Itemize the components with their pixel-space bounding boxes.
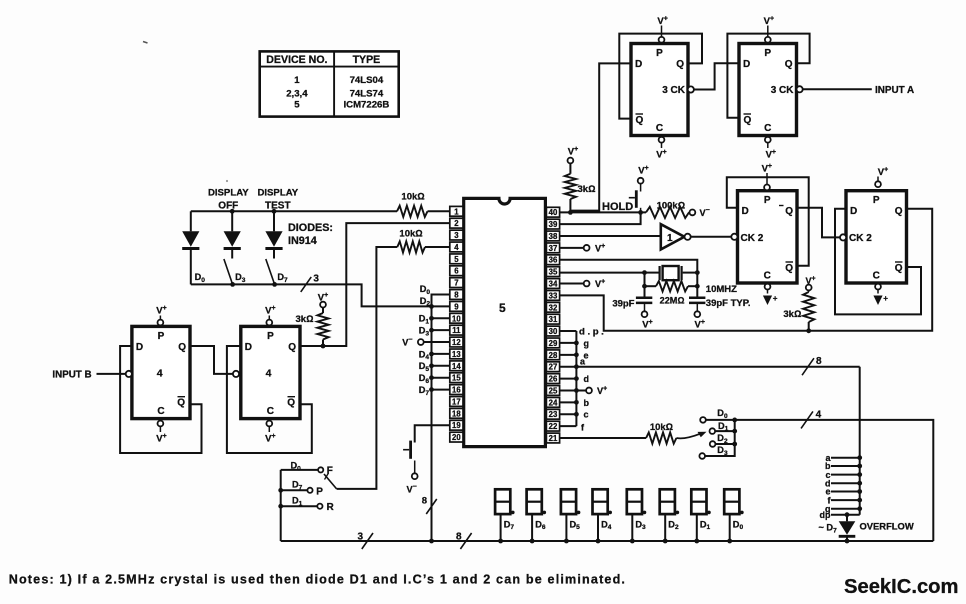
- svg-text:35: 35: [549, 268, 558, 277]
- svg-text:30: 30: [549, 327, 558, 336]
- wire U4A Q to U4B CK: [190, 346, 233, 374]
- V+ terminal pin 37: [560, 243, 605, 254]
- label OVERFLOW: [860, 521, 914, 532]
- wire D7 row to P: [278, 488, 307, 493]
- wire segment g to overflow LED: [825, 504, 862, 514]
- svg-text:13: 13: [452, 350, 461, 359]
- svg-text:c: c: [584, 410, 589, 420]
- svg-text:39: 39: [549, 220, 558, 229]
- V- terminal (reset button): [407, 473, 418, 494]
- svg-text:3kΩ: 3kΩ: [578, 184, 596, 195]
- svg-text:23: 23: [549, 410, 558, 419]
- svg-text:3 CK: 3 CK: [771, 85, 795, 96]
- svg-text:1: 1: [294, 75, 300, 86]
- bus slash 8 (segment bus): [802, 356, 822, 375]
- svg-text:TYPE: TYPE: [353, 54, 381, 66]
- svg-text:ICM7226B: ICM7226B: [343, 99, 389, 110]
- label D0 pin8: [420, 284, 431, 296]
- svg-text:IN914: IN914: [288, 235, 317, 247]
- wire d.p./segment pin bus (pins 30-22): [560, 331, 579, 426]
- V+ terminal U2B clear: [873, 284, 888, 305]
- svg-text:C: C: [157, 406, 164, 417]
- svg-text:22: 22: [549, 422, 558, 431]
- resistor 3k (U2B): [783, 276, 815, 331]
- V+ terminal U4A preset: [156, 305, 166, 325]
- wire pin 8 D0: [432, 295, 450, 307]
- IC U5 right pin boxes 40-21: [546, 207, 559, 443]
- label d.p. pin30: [579, 327, 606, 338]
- wire INPUT B: [97, 373, 126, 375]
- node: display-off branch: [230, 209, 235, 214]
- label D7 pin16: [419, 385, 430, 397]
- svg-text:2,3,4: 2,3,4: [286, 88, 308, 99]
- V+ terminal U2A clear: [763, 284, 778, 305]
- svg-text:7: 7: [454, 279, 458, 288]
- LED overflow: [839, 515, 856, 544]
- svg-text:F: F: [327, 466, 333, 477]
- label D3 (digit sel): [717, 445, 728, 457]
- svg-text:20: 20: [452, 433, 461, 442]
- svg-text:R: R: [327, 502, 335, 513]
- node 3k / segment rail: [806, 328, 811, 333]
- svg-text:D: D: [743, 59, 750, 70]
- resistor 22M: [645, 281, 698, 306]
- inverter U1: [661, 224, 691, 249]
- V- terminal (100k): [690, 207, 710, 218]
- wire inverter to U2A clock: [691, 236, 732, 238]
- crystal Y1 10MHZ: [645, 266, 698, 280]
- svg-text:8: 8: [422, 496, 427, 507]
- svg-text:Q: Q: [785, 206, 793, 217]
- pushbutton HOLD: [629, 184, 641, 213]
- wire INPUT A: [803, 88, 872, 90]
- wire U3A feedback loop: [619, 34, 702, 119]
- svg-text:3: 3: [313, 274, 319, 285]
- svg-text:36: 36: [549, 256, 558, 265]
- label D5 pin14: [419, 361, 430, 373]
- 7-segment display D2: [660, 489, 680, 543]
- wire D0 row to F: [281, 469, 318, 471]
- bus slash 8 (data bus): [422, 496, 437, 515]
- wire pin 19 to reset button: [415, 425, 450, 442]
- label g pin29: [584, 338, 590, 348]
- svg-text:100kΩ: 100kΩ: [657, 201, 685, 212]
- flip-flop U3A 74LS74: [631, 44, 694, 136]
- V+ terminal pin 25: [560, 385, 607, 396]
- wire segment e to overflow LED: [825, 487, 862, 497]
- svg-text:3: 3: [454, 231, 459, 240]
- V+ terminal U4A clear: [156, 421, 166, 445]
- label f pin22: [581, 423, 585, 433]
- svg-text:dp: dp: [820, 510, 831, 520]
- 7-segment display D7: [495, 489, 514, 543]
- pushbutton (pin 19 reset): [403, 441, 415, 474]
- wire bottom multiplex bus: [281, 540, 934, 542]
- V+ terminal U4B preset: [265, 305, 275, 325]
- svg-text:Q: Q: [785, 59, 793, 70]
- svg-text:4: 4: [454, 243, 459, 252]
- wire U4A feedback loop: [120, 346, 201, 453]
- resistor 10k (pin 21): [646, 422, 676, 444]
- diode D3 IN914: [224, 211, 241, 258]
- selector arm to D1: [676, 432, 706, 439]
- svg-text:DIODES:: DIODES:: [288, 222, 333, 234]
- svg-text:D: D: [635, 59, 642, 70]
- label D7 (P row): [292, 480, 303, 492]
- wire segment b to overflow LED: [825, 461, 862, 471]
- svg-text:d: d: [584, 374, 590, 384]
- svg-text:37: 37: [549, 244, 558, 253]
- label 39pF (C1): [612, 299, 634, 310]
- wire switch common bus to pins 8/9: [191, 284, 450, 306]
- node pin40/3k: [568, 210, 573, 215]
- capacitor C2 39pF: [689, 298, 705, 312]
- svg-text:Q: Q: [895, 206, 903, 217]
- contact D0 (digit sel): [700, 417, 706, 423]
- label HOLD: [602, 201, 633, 213]
- svg-text:D: D: [245, 342, 252, 353]
- label D1 (digit sel): [718, 421, 729, 433]
- wire segment d to overflow LED: [825, 478, 862, 488]
- svg-text:SeekIC.com: SeekIC.com: [844, 576, 958, 598]
- bus slash 3 (switch bus): [301, 274, 320, 292]
- svg-text:CK 2: CK 2: [849, 233, 872, 244]
- resistor 100k (hold): [646, 201, 689, 219]
- svg-text:1: 1: [454, 207, 459, 216]
- svg-text:INPUT A: INPUT A: [875, 85, 914, 96]
- svg-text:CK 2: CK 2: [741, 233, 764, 244]
- V+ terminal U2B preset: [875, 167, 888, 188]
- IC U5 ICM7226B body: [464, 198, 546, 446]
- svg-text:3kΩ: 3kΩ: [296, 314, 314, 325]
- svg-text:18: 18: [452, 409, 461, 418]
- label DIODES: IN914: [288, 222, 333, 247]
- svg-text:4: 4: [816, 410, 822, 421]
- switch D3 (display off): [224, 259, 235, 287]
- V+ terminal U3A preset: [657, 16, 667, 43]
- label D6 pin15: [419, 373, 430, 385]
- wire pin1 bus (display diodes common to pin 1): [191, 210, 450, 212]
- V+ terminal (pin 40 pullup): [568, 146, 579, 163]
- svg-text:HOLD: HOLD: [602, 201, 633, 213]
- wire pin 10 D1: [429, 316, 450, 321]
- contact D2 (digit sel): [710, 441, 716, 447]
- svg-text:8: 8: [456, 532, 462, 543]
- flip-flop U2B 74LS74: [840, 191, 907, 283]
- V+ terminal pin 34: [560, 279, 605, 290]
- svg-text:34: 34: [549, 280, 558, 289]
- svg-text:15: 15: [452, 374, 461, 383]
- svg-text:OVERFLOW: OVERFLOW: [860, 521, 914, 532]
- label a pin27: [580, 357, 586, 367]
- svg-text:DISPLAY: DISPLAY: [257, 188, 298, 199]
- svg-text:D: D: [850, 206, 857, 217]
- svg-text:9: 9: [454, 302, 459, 311]
- label DISPLAY OFF: [208, 188, 249, 212]
- wire pin 2 to FF4b Q: [299, 223, 450, 346]
- svg-text:DEVICE NO.: DEVICE NO.: [266, 54, 327, 66]
- svg-text:27: 27: [549, 363, 558, 372]
- svg-text:+: +: [883, 294, 888, 303]
- svg-text:19: 19: [452, 421, 461, 430]
- svg-text:38: 38: [549, 232, 558, 241]
- wire segment bus (pin 27 to LED ladder): [576, 367, 859, 515]
- svg-text:26: 26: [549, 375, 558, 384]
- wire U3A D to pin40 node: [570, 63, 631, 210]
- label D2 (digit sel): [717, 433, 728, 445]
- wire U3B feedback loop: [727, 34, 809, 118]
- svg-text:3 CK: 3 CK: [662, 85, 686, 96]
- svg-text:31: 31: [549, 315, 558, 324]
- svg-text:28: 28: [549, 351, 558, 360]
- flip-flop U4A 74LS74: [126, 326, 190, 418]
- label D0 (F row): [291, 461, 302, 473]
- svg-text:DISPLAY: DISPLAY: [208, 188, 249, 199]
- svg-text:8: 8: [816, 356, 822, 367]
- svg-text:Q: Q: [288, 342, 296, 353]
- wire digit bus to display rail (4 lines): [735, 420, 934, 541]
- label DISPLAY TEST: [257, 188, 298, 212]
- label c pin23: [584, 410, 589, 420]
- SeekIC.com logo: [844, 576, 958, 598]
- svg-text:25: 25: [549, 386, 558, 395]
- V+ terminal (C1): [642, 311, 653, 330]
- flip-flop U4B 74LS74: [233, 326, 300, 418]
- svg-text:Q: Q: [785, 263, 793, 274]
- wire pin 15 D6: [429, 375, 450, 380]
- flip-flop U3B 74LS74: [739, 44, 803, 136]
- svg-text:g: g: [584, 338, 590, 348]
- svg-text:6: 6: [454, 267, 459, 276]
- resistor 3k (pin 40 pullup): [565, 163, 596, 212]
- V+ terminal (HOLD): [638, 165, 649, 184]
- svg-text:14: 14: [452, 362, 461, 371]
- svg-text:Notes: 1) If a 2.5MHz crystal: Notes: 1) If a 2.5MHz crystal is used th…: [9, 573, 626, 587]
- svg-text:10MHZ: 10MHZ: [706, 284, 737, 295]
- svg-text:11: 11: [452, 326, 461, 335]
- svg-text:74LS04: 74LS04: [350, 75, 384, 86]
- wire U2B feedback loop: [835, 209, 921, 315]
- svg-text:d.p.: d.p.: [579, 327, 606, 338]
- svg-text:5: 5: [499, 301, 506, 315]
- svg-text:4: 4: [157, 368, 163, 380]
- svg-text:33: 33: [549, 291, 558, 300]
- svg-text:P: P: [764, 195, 771, 206]
- V+ terminal (C2): [694, 311, 705, 330]
- svg-text:3: 3: [357, 532, 363, 543]
- svg-text:C: C: [764, 271, 771, 282]
- svg-text:P: P: [764, 48, 771, 59]
- wire pin 38 to inverter: [560, 235, 661, 237]
- svg-text:P: P: [873, 195, 880, 206]
- wire segment f to overflow LED: [828, 495, 863, 505]
- label INPUT A: [875, 85, 914, 96]
- svg-text:10kΩ: 10kΩ: [399, 228, 422, 239]
- resistor 10k (pin 4): [397, 228, 425, 252]
- node data bus / bottom bus: [429, 539, 434, 544]
- svg-text:Q: Q: [178, 342, 186, 353]
- wire pin 14 D5: [429, 363, 450, 368]
- svg-text:Q: Q: [744, 115, 752, 126]
- svg-text:40: 40: [549, 208, 558, 217]
- node: display-test branch: [272, 209, 277, 214]
- wire 8-line data bus vertical: [431, 306, 433, 541]
- diode D0 IN914: [182, 211, 199, 284]
- wire pin 39 jog: [560, 212, 641, 224]
- V+ terminal U2A preset: [762, 163, 772, 190]
- label d pin26: [584, 374, 590, 384]
- svg-text:8: 8: [454, 290, 459, 299]
- svg-text:17: 17: [452, 397, 461, 406]
- IC U5 left pin boxes 1-20: [450, 206, 463, 442]
- label b pin24: [584, 398, 590, 408]
- svg-text:OFF: OFF: [218, 201, 238, 212]
- wire pin 13 D4: [429, 352, 450, 357]
- wire pin 36 branch: [560, 260, 700, 298]
- svg-text:74LS74: 74LS74: [350, 88, 384, 99]
- contact D3 (digit sel): [699, 453, 705, 459]
- svg-text:2: 2: [454, 219, 459, 228]
- svg-text:5: 5: [294, 99, 300, 110]
- label D1 (R row): [292, 496, 303, 508]
- 7-segment display D6: [527, 489, 547, 543]
- label D3 switch: [235, 272, 246, 284]
- svg-text:Q: Q: [177, 398, 185, 409]
- svg-text:b: b: [584, 398, 590, 408]
- label e pin28: [584, 350, 589, 360]
- wire pin 11 D3: [429, 328, 450, 333]
- resistor 10k (pin 1): [397, 192, 428, 217]
- svg-text:1: 1: [667, 233, 673, 244]
- bus slash 4: [801, 410, 822, 429]
- label D0 (digit sel): [717, 408, 728, 420]
- V+ terminal U3B preset: [764, 16, 774, 43]
- node HOLD/pin39: [638, 210, 643, 215]
- scan speck left: [226, 180, 228, 182]
- wire U2A Q to U2B CK: [797, 208, 840, 238]
- svg-text:10kΩ: 10kΩ: [650, 422, 673, 433]
- contact R: [317, 502, 334, 513]
- wire D1 row to R: [278, 504, 317, 509]
- device/type legend table: [260, 51, 399, 116]
- wire U3A CK from U3B: [694, 63, 739, 89]
- resistor 3k (FF4b Q pullup): [296, 308, 329, 347]
- wire pin 16 D7: [429, 387, 450, 392]
- V+ terminal U3A clear: [656, 137, 666, 161]
- bus slash 3 (bottom left): [357, 532, 373, 550]
- wire pin 35 branch: [560, 270, 647, 298]
- svg-text:INPUT B: INPUT B: [52, 370, 91, 381]
- V+ terminal (3k pullup): [318, 292, 328, 308]
- svg-text:Q: Q: [895, 263, 903, 274]
- wire F/P/R common down to bottom bus: [280, 470, 282, 541]
- capacitor C1 39pF: [636, 298, 652, 312]
- notes text: [9, 573, 626, 587]
- svg-text:4: 4: [266, 368, 272, 380]
- label D4 pin13: [419, 349, 430, 361]
- svg-text:C: C: [267, 406, 274, 417]
- svg-text:39pF: 39pF: [612, 299, 634, 310]
- 7-segment display D0: [724, 489, 744, 543]
- flip-flop U2A 74LS74: [731, 191, 797, 283]
- label INPUT B: [52, 370, 91, 381]
- svg-text:24: 24: [549, 398, 558, 407]
- V+ terminal U4B clear: [265, 421, 275, 445]
- diode D7 IN914: [265, 211, 282, 258]
- svg-text:TEST: TEST: [265, 201, 291, 212]
- wire pin 40 rail: [560, 211, 646, 213]
- wire U4B feedback loop: [227, 346, 312, 453]
- svg-text:Q: Q: [636, 115, 644, 126]
- contact P: [307, 486, 323, 497]
- wire pin 4 branch: [337, 247, 450, 489]
- svg-text:P: P: [316, 486, 323, 497]
- node FF4b Q / 3k: [321, 344, 326, 349]
- svg-text:16: 16: [452, 386, 461, 395]
- label D7 switch: [277, 272, 288, 284]
- node pins 8/9 join: [429, 304, 434, 309]
- contact D1 (digit sel): [710, 428, 716, 434]
- switch D7 (display test): [266, 259, 277, 287]
- bus slash 8 (bottom mid): [456, 532, 472, 550]
- svg-text:32: 32: [549, 303, 558, 312]
- wire digit selector bus: [705, 418, 737, 457]
- wire pin 21 to 10k: [560, 437, 646, 439]
- wire segment a to overflow LED: [825, 453, 862, 463]
- svg-text:P: P: [267, 331, 274, 342]
- 7-segment display D1: [691, 489, 711, 543]
- switch arm to F contact: [324, 473, 337, 489]
- svg-text:D: D: [742, 206, 749, 217]
- label D1 pin10: [419, 314, 430, 326]
- svg-text:P: P: [656, 48, 663, 59]
- label 39pF TYP. (C2): [706, 298, 751, 309]
- svg-text:21: 21: [549, 434, 558, 443]
- svg-text:3kΩ: 3kΩ: [783, 309, 801, 320]
- V- terminal pin 12: [402, 337, 450, 348]
- scan speck top left: [143, 42, 148, 44]
- label D0 switch: [195, 272, 206, 284]
- label ~D7 (overflow LED): [819, 523, 838, 535]
- 7-segment display D5: [561, 489, 580, 543]
- svg-text:C: C: [873, 271, 880, 282]
- wire segment dp to overflow LED: [820, 510, 860, 520]
- svg-text:39pF TYP.: 39pF TYP.: [706, 298, 751, 309]
- svg-text:+: +: [773, 294, 778, 303]
- svg-text:Q: Q: [287, 398, 295, 409]
- svg-text:C: C: [764, 123, 771, 134]
- 7-segment display D4: [593, 489, 613, 543]
- svg-text:D: D: [136, 342, 143, 353]
- wire U2A feedback loop: [727, 177, 809, 265]
- wire pin 33 to U2B Q: [560, 209, 932, 331]
- svg-text:29: 29: [549, 339, 558, 348]
- label D2 pin9: [420, 296, 431, 308]
- svg-text:22MΩ: 22MΩ: [660, 296, 685, 306]
- svg-text:P: P: [158, 331, 165, 342]
- svg-text:Q: Q: [676, 59, 684, 70]
- svg-text:5: 5: [454, 255, 459, 264]
- svg-text:10: 10: [452, 314, 461, 323]
- svg-text:12: 12: [452, 338, 461, 347]
- label 10MHZ: [706, 284, 737, 295]
- svg-text:10kΩ: 10kΩ: [401, 192, 424, 203]
- V+ terminal U3B clear: [765, 137, 776, 161]
- label D3 pin11: [419, 326, 430, 338]
- 7-segment display D3: [627, 489, 647, 543]
- wire segment c to overflow LED: [825, 470, 862, 480]
- svg-text:C: C: [656, 123, 663, 134]
